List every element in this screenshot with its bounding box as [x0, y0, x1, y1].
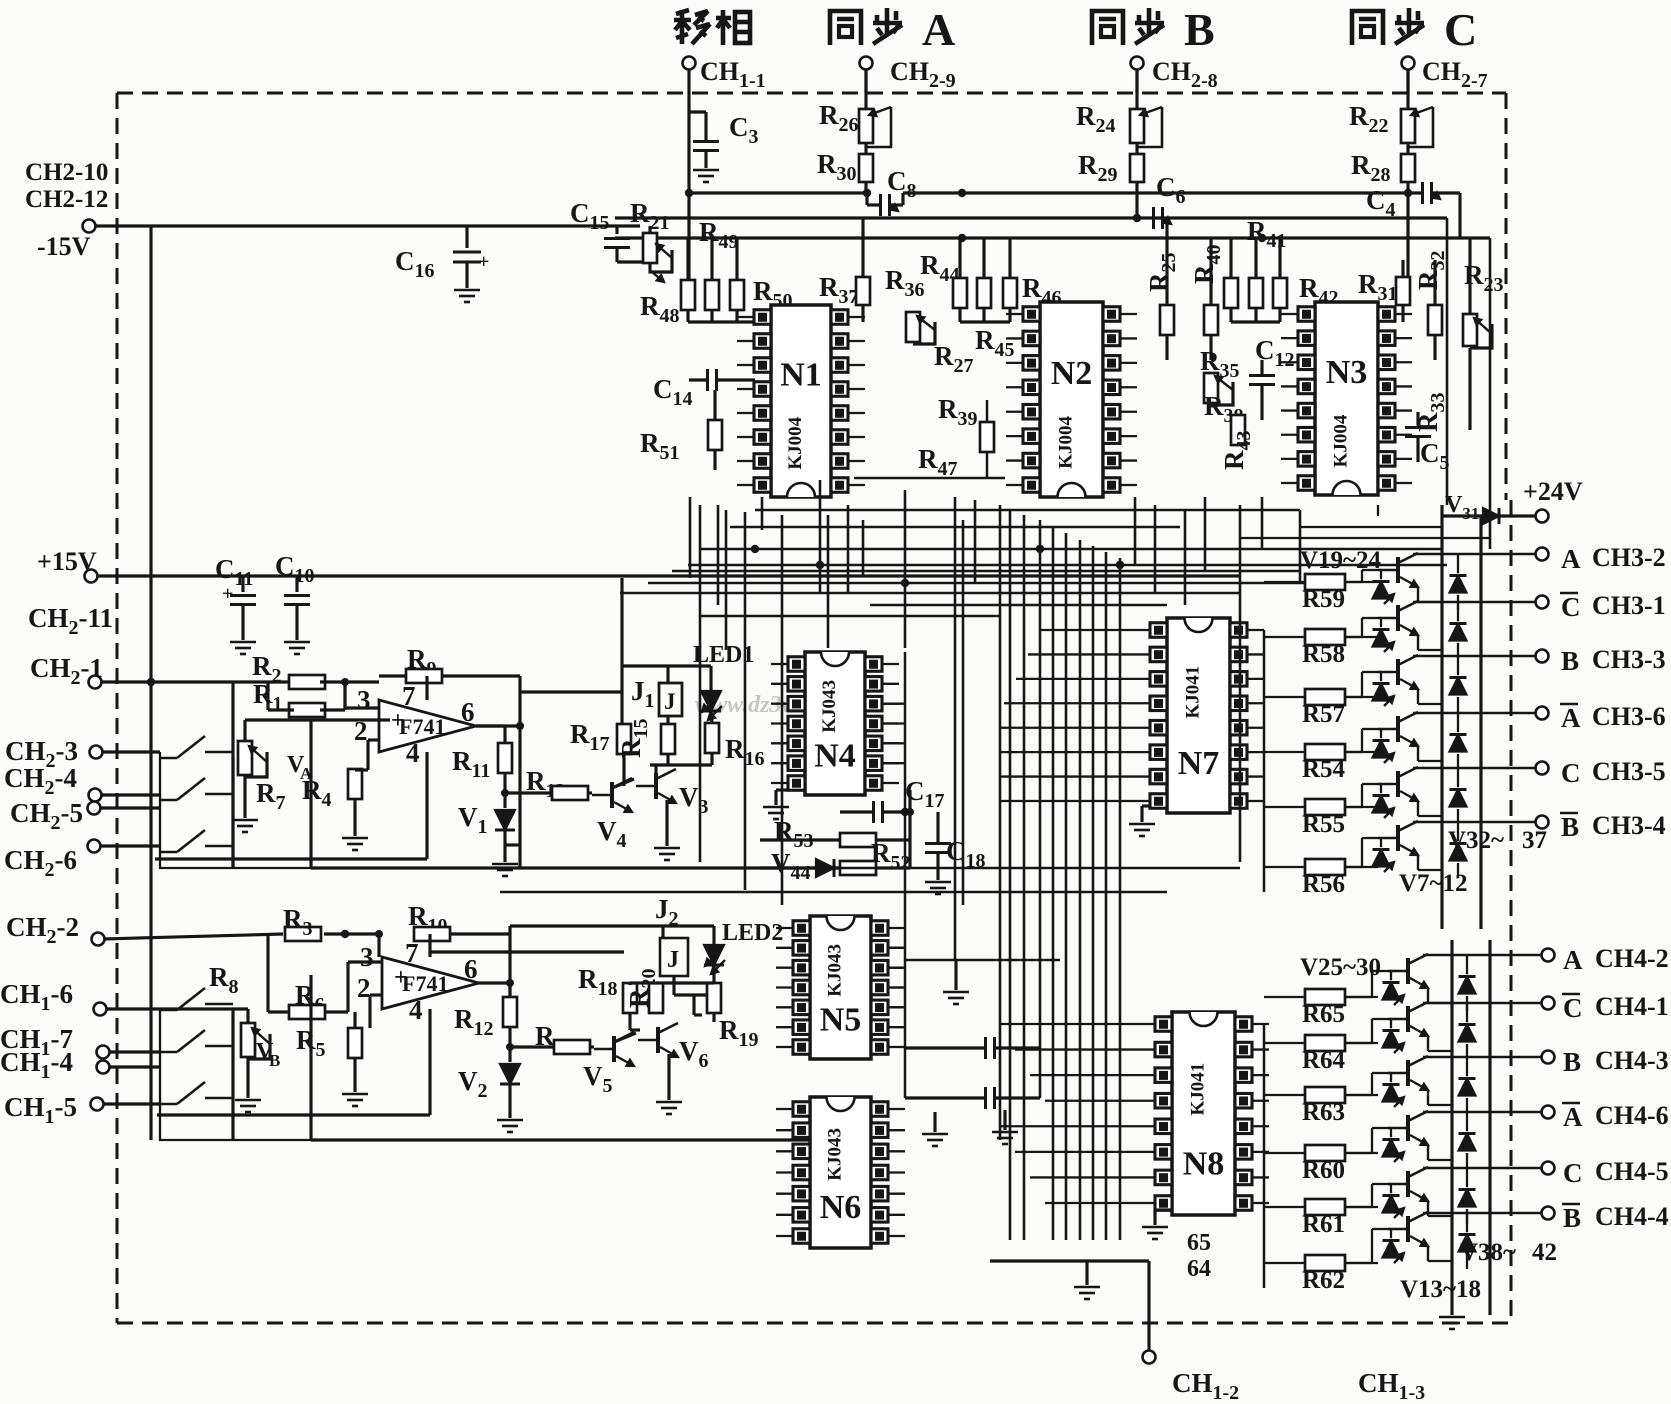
- svg-text:B: B: [1563, 1047, 1581, 1077]
- svg-text:KJ043: KJ043: [819, 680, 840, 733]
- svg-text:7: 7: [402, 681, 416, 711]
- svg-text:CH4-3: CH4-3: [1595, 1046, 1669, 1075]
- svg-text:R56: R56: [1302, 871, 1345, 898]
- svg-text:N5: N5: [820, 1001, 862, 1038]
- svg-text:V32~: V32~: [1448, 827, 1504, 854]
- svg-text:CH3-5: CH3-5: [1592, 757, 1666, 786]
- svg-text:LED2: LED2: [722, 920, 783, 946]
- svg-text:C: C: [1561, 592, 1581, 622]
- svg-text:3: 3: [357, 685, 371, 715]
- svg-text:KJ004: KJ004: [1056, 416, 1077, 469]
- svg-text:V13~18: V13~18: [1400, 1276, 1481, 1303]
- svg-text:CH4-6: CH4-6: [1595, 1101, 1669, 1130]
- svg-text:A: A: [1561, 544, 1581, 574]
- svg-text:B: B: [1561, 812, 1579, 842]
- svg-text:KJ043: KJ043: [825, 1128, 846, 1181]
- svg-text:KJ041: KJ041: [1188, 1063, 1209, 1116]
- svg-text:65: 65: [1187, 1230, 1211, 1256]
- svg-text:N2: N2: [1051, 355, 1093, 392]
- svg-text:C: C: [1444, 4, 1477, 55]
- svg-text:B: B: [1561, 646, 1579, 676]
- svg-text:R64: R64: [1302, 1047, 1346, 1074]
- svg-text:4: 4: [406, 738, 420, 768]
- svg-text:N4: N4: [814, 737, 856, 774]
- svg-text:KJ004: KJ004: [1331, 414, 1352, 467]
- svg-text:C: C: [1563, 1158, 1583, 1188]
- svg-text:N1: N1: [780, 357, 822, 394]
- svg-text:CH3-1: CH3-1: [1592, 591, 1666, 620]
- svg-text:R61: R61: [1302, 1211, 1345, 1238]
- svg-text:CH3-6: CH3-6: [1592, 702, 1666, 731]
- svg-text:R59: R59: [1302, 586, 1345, 613]
- svg-text:C: C: [1561, 758, 1581, 788]
- svg-text:-15V: -15V: [37, 232, 91, 261]
- svg-text:A: A: [922, 4, 955, 55]
- svg-text:37: 37: [1522, 827, 1547, 854]
- svg-text:B: B: [1184, 4, 1215, 55]
- svg-text:C: C: [1563, 993, 1583, 1023]
- svg-text:CH3-4: CH3-4: [1592, 811, 1666, 840]
- svg-text:N6: N6: [820, 1189, 862, 1226]
- svg-text:F741: F741: [402, 971, 448, 996]
- svg-text:KJ041: KJ041: [1183, 666, 1204, 719]
- svg-text:B: B: [1563, 1203, 1581, 1233]
- svg-text:CH4-5: CH4-5: [1595, 1157, 1669, 1186]
- svg-text:B: B: [269, 1051, 280, 1070]
- svg-text:CH4-4: CH4-4: [1595, 1202, 1669, 1231]
- svg-text:CH2-12: CH2-12: [25, 186, 108, 213]
- svg-text:KJ004: KJ004: [785, 416, 806, 469]
- svg-text:R63: R63: [1302, 1099, 1345, 1126]
- svg-text:F741: F741: [399, 714, 445, 739]
- svg-text:V25~30: V25~30: [1300, 954, 1381, 981]
- svg-text:+: +: [478, 251, 489, 273]
- svg-text:3: 3: [360, 942, 374, 972]
- svg-text:R55: R55: [1302, 811, 1345, 838]
- svg-text:+24V: +24V: [1523, 477, 1583, 506]
- svg-text:R57: R57: [1302, 701, 1345, 728]
- svg-text:CH4-2: CH4-2: [1595, 944, 1669, 973]
- svg-text:J: J: [664, 689, 676, 714]
- svg-text:R60: R60: [1302, 1157, 1345, 1184]
- svg-text:4: 4: [409, 995, 423, 1025]
- svg-text:6: 6: [464, 954, 478, 984]
- svg-text:A: A: [1563, 1102, 1583, 1132]
- svg-text:CH3-2: CH3-2: [1592, 543, 1666, 572]
- svg-text:R54: R54: [1302, 756, 1346, 783]
- svg-text:J: J: [667, 947, 679, 973]
- svg-text:CH4-1: CH4-1: [1595, 992, 1669, 1021]
- svg-text:CH3-3: CH3-3: [1592, 645, 1666, 674]
- svg-text:R58: R58: [1302, 641, 1345, 668]
- svg-text:R65: R65: [1302, 1001, 1345, 1028]
- svg-text:CH2-10: CH2-10: [25, 159, 108, 186]
- svg-text:KJ043: KJ043: [825, 944, 846, 997]
- svg-text:N3: N3: [1326, 354, 1368, 391]
- svg-text:A: A: [1563, 945, 1583, 975]
- svg-text:N7: N7: [1178, 745, 1220, 782]
- svg-text:A: A: [1561, 703, 1581, 733]
- svg-text:N8: N8: [1183, 1145, 1225, 1182]
- svg-text:7: 7: [405, 938, 419, 968]
- svg-text:V38~: V38~: [1460, 1239, 1516, 1266]
- svg-text:+: +: [222, 583, 233, 605]
- svg-text:42: 42: [1532, 1239, 1557, 1266]
- svg-text:R62: R62: [1302, 1267, 1345, 1294]
- svg-text:6: 6: [461, 697, 475, 727]
- svg-text:64: 64: [1187, 1256, 1211, 1282]
- svg-text:V7~12: V7~12: [1399, 870, 1468, 897]
